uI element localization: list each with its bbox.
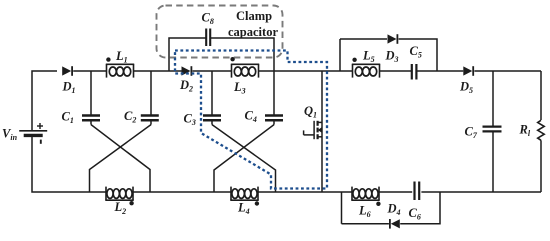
svg-text:Vin: Vin (2, 127, 18, 143)
label D3 (385, 49, 399, 65)
svg-text:D4: D4 (387, 202, 401, 218)
wire cross diagonal C4 to left node (214, 125, 274, 192)
svg-text:Clamp: Clamp (236, 9, 272, 23)
label L5 (362, 49, 375, 65)
label C5 (410, 44, 422, 60)
label C3 (184, 112, 196, 128)
wire bottom rail L4 to D4 leg (258, 191, 352, 193)
wire top-left from source to top rail (32, 71, 57, 130)
svg-text:C4: C4 (245, 109, 257, 125)
inductor L4 (230, 187, 258, 201)
capacitor C6 (415, 182, 420, 201)
svg-text:L6: L6 (358, 204, 371, 220)
dashed current path loop (175, 51, 327, 189)
svg-text:C1: C1 (62, 110, 74, 126)
svg-text:C6: C6 (409, 206, 421, 222)
wire right edge top (540, 71, 542, 120)
capacitor C5 (412, 64, 417, 80)
svg-text:D1: D1 (62, 80, 76, 96)
svg-text:L1: L1 (115, 49, 128, 65)
node wire C2 tap (150, 71, 152, 116)
wire bottom rail L6 to C6 (379, 191, 412, 193)
dot L6 polarity (376, 202, 380, 206)
svg-text:L2: L2 (114, 200, 127, 216)
svg-text:C2: C2 (124, 109, 136, 125)
node wire C3 tap (211, 71, 213, 116)
capacitor C4 (265, 116, 283, 121)
svg-text:L4: L4 (237, 201, 250, 217)
wire bottom rail L2 to L4 (133, 191, 232, 193)
capacitor C8 clamp (206, 29, 210, 47)
wire C3 to cross (211, 120, 213, 124)
diode D5 (463, 66, 473, 76)
inductor L1 (106, 64, 134, 77)
clamp capacitor dashed box (157, 6, 283, 58)
wire D3 bypass top right (399, 39, 437, 71)
svg-text:D5: D5 (459, 80, 473, 96)
diode D4 (390, 219, 400, 229)
label L3 (233, 80, 246, 96)
dot L2 polarity (129, 201, 133, 205)
svg-text:C3: C3 (184, 112, 196, 128)
label Vin (2, 127, 18, 143)
wire top rail D2 to L3 (193, 70, 232, 72)
wire bottom rail Q1 to L6 (351, 191, 354, 193)
inductor L6 (351, 187, 379, 201)
label C1 (62, 110, 74, 126)
svg-text:L3: L3 (233, 80, 246, 96)
svg-text:C7: C7 (465, 125, 478, 141)
wire top rail D1 to L1 (73, 70, 106, 72)
dot L3 polarity (230, 57, 234, 61)
diode D1 (62, 66, 72, 76)
label L2 (114, 200, 127, 216)
label C6 (409, 206, 421, 222)
label C7 (465, 125, 478, 141)
wire top rail C5 to D5 (417, 70, 463, 72)
label C2 (124, 109, 136, 125)
wire C2 to cross (150, 120, 152, 124)
transistor Q1 mosfet (304, 121, 322, 139)
inductor L5 (352, 64, 380, 77)
wire D4 bypass bottom right (400, 192, 440, 224)
inductor L2 (105, 187, 133, 201)
label D5 (459, 80, 473, 96)
wire cross diagonal C1 to right node (91, 125, 150, 192)
svg-text:Rl: Rl (519, 123, 531, 139)
node wire C1 tap (90, 71, 92, 116)
wire clamp right leg (210, 38, 274, 71)
wire top rail L1 to D2 (134, 70, 182, 72)
wire bottom rail C6 to corner (421, 191, 541, 193)
wire cross diagonal C2 to left node (90, 125, 152, 192)
diode D3 (388, 34, 398, 44)
wire top rail L5 to C5 (380, 70, 412, 72)
svg-text:Q1: Q1 (304, 104, 317, 120)
capacitor C7 (483, 127, 502, 132)
wire top rail L3 to L5 (259, 70, 353, 72)
label D4 (387, 202, 401, 218)
wire C7 branch top (492, 71, 494, 126)
dot L5 polarity (352, 58, 356, 62)
capacitor C1 (82, 116, 100, 121)
wire C1 to cross (90, 120, 92, 124)
label L1 (115, 49, 128, 65)
svg-text:L5: L5 (362, 49, 375, 65)
capacitor C3 (203, 116, 221, 121)
label D1 (62, 80, 76, 96)
label L4 (237, 201, 250, 217)
wire top rail D5 to corner (474, 70, 541, 72)
svg-text:C5: C5 (410, 44, 422, 60)
label C4 (245, 109, 257, 125)
wire C4 to cross (273, 120, 275, 124)
wire Q1 drain-source (321, 71, 323, 192)
inductor L3 (231, 64, 259, 77)
node wire C4 tap (273, 71, 275, 116)
wire D3 bypass top left (340, 38, 387, 40)
svg-text:D3: D3 (385, 49, 399, 65)
wire D3 bypass left leg (339, 39, 341, 71)
svg-text:capacitor: capacitor (228, 25, 278, 39)
wire cross diagonal C3 to right node (212, 125, 276, 192)
label D2 (179, 78, 193, 94)
wire D4 bypass left leg (341, 192, 343, 224)
dot L1 polarity (106, 57, 110, 61)
voltage source Vin battery (19, 123, 47, 144)
wire C7 branch bottom (492, 132, 494, 192)
label Clamp capacitor (228, 9, 278, 39)
label C8 (202, 11, 214, 27)
label Q1 (304, 104, 317, 120)
resistor RL (538, 120, 545, 140)
svg-text:D2: D2 (179, 78, 193, 94)
label L6 (358, 204, 371, 220)
diode D2 (182, 66, 192, 76)
wire clamp left leg (169, 38, 206, 71)
label RL (519, 123, 531, 139)
wire right edge bottom (540, 140, 542, 192)
capacitor C2 (141, 116, 159, 121)
wire D4 bypass bottom left (342, 223, 389, 225)
wire bottom-left from source to bottom rail (32, 137, 107, 192)
svg-text:C8: C8 (202, 11, 214, 27)
dot L4 polarity (255, 201, 259, 205)
